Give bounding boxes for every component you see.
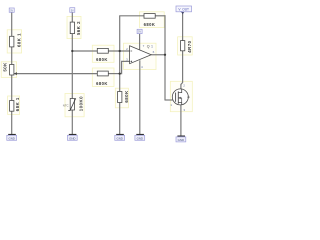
svg-text:5V: 5V <box>71 9 74 12</box>
wire gate row <box>165 99 178 101</box>
svg-text:5V: 5V <box>138 31 141 34</box>
resistor R3 68K1 body <box>10 101 14 112</box>
thermistor diagonal mark <box>68 98 76 110</box>
node V_OUT arrow <box>181 12 184 14</box>
wire V_OUT to 4R70 to drain <box>181 14 183 90</box>
svg-text:68K 1: 68K 1 <box>16 33 21 47</box>
highlight box R6 680K feedback <box>140 12 165 28</box>
wire col1 R3 to ground <box>11 111 13 134</box>
wire R5 right to node <box>108 73 119 75</box>
ground op-amp pin4 <box>135 134 145 141</box>
highlight box RV1 pot <box>1 62 16 78</box>
svg-text:68K 1: 68K 1 <box>15 97 20 111</box>
highlight box R3 <box>8 96 20 114</box>
transistor gate bar <box>175 93 177 102</box>
svg-text:GND: GND <box>8 136 14 140</box>
wire output column <box>164 15 166 100</box>
svg-text:5V: 5V <box>10 9 13 12</box>
transistor channel bar <box>177 91 179 103</box>
resistor R7 680K vertical body <box>118 92 122 103</box>
ground R7 column <box>115 134 125 141</box>
wire col2 NTC to ground <box>71 110 73 134</box>
svg-text:50K: 50K <box>2 62 7 72</box>
wire pin2 row left <box>72 50 97 52</box>
highlight box R7 680K vertical <box>115 88 128 108</box>
wire op-amp pin4 to ground <box>139 60 141 134</box>
wire op-amp output row <box>151 54 165 56</box>
junction node N1 wiper row <box>119 72 121 74</box>
power flag op-amp pin7 <box>137 29 142 33</box>
node V_OUT flag box <box>176 6 192 12</box>
wire node N1 vertical lower <box>119 103 121 135</box>
highlight box R4 680K upper <box>92 45 114 62</box>
svg-text:680K: 680K <box>96 57 108 62</box>
wire pin3 zigzag <box>120 61 130 73</box>
svg-text:GND: GND <box>116 136 122 140</box>
potentiometer RV1 body <box>10 65 14 76</box>
resistor R2 56K2 body <box>70 22 74 33</box>
junction node output <box>164 54 166 56</box>
op-amp plus sign <box>131 60 133 62</box>
wire pin2 row right <box>108 50 130 52</box>
highlight box R8 4R70 <box>178 37 193 55</box>
wire source to ground <box>180 105 182 136</box>
resistor R6 680K feedback body <box>144 14 155 19</box>
wire top row right of R6 <box>155 15 165 17</box>
transistor drain stub <box>178 89 181 93</box>
highlight box R5 680K lower <box>92 68 114 86</box>
resistor R4 680K upper body <box>97 48 108 53</box>
wire col2 R2 to NTC <box>71 34 73 99</box>
wire op-amp pin7 <box>139 34 141 50</box>
svg-text:56K 2: 56K 2 <box>76 21 81 35</box>
svg-text:100K0: 100K0 <box>79 96 84 111</box>
wire node N1 vertical upper <box>119 16 121 92</box>
wire wiper row to R5 <box>14 73 97 75</box>
junction node at R2/NTC divider <box>71 50 73 52</box>
svg-text:V_OUT: V_OUT <box>178 8 189 12</box>
ground col2 NTC <box>67 134 77 141</box>
ground transistor source <box>176 136 186 143</box>
potentiometer wiper arrow <box>14 72 17 75</box>
svg-text:Q: Q <box>147 45 150 49</box>
op-amp U1 triangle <box>130 46 152 64</box>
power flag col1 <box>9 8 14 12</box>
svg-text:1: 1 <box>151 45 153 49</box>
highlight box R1 <box>7 30 21 53</box>
power flag col2 <box>70 8 75 13</box>
transistor source stub <box>178 103 181 105</box>
svg-text:GND: GND <box>137 136 143 140</box>
svg-text:4R70: 4R70 <box>187 40 192 52</box>
svg-text:680K: 680K <box>124 90 129 103</box>
svg-text:680K: 680K <box>144 22 156 27</box>
thermistor NTC body <box>70 99 74 111</box>
wire col1 flag to R1 <box>11 12 13 36</box>
transistor body arrow <box>178 97 181 99</box>
highlight box op-amp U1 <box>124 43 157 69</box>
transistor right tick <box>187 96 189 98</box>
op-amp minus sign <box>131 50 133 52</box>
wire col1 pot to R3 <box>11 75 13 101</box>
highlight box transistor Q1 <box>170 81 192 111</box>
svg-text:GND: GND <box>178 138 184 142</box>
svg-text:680K: 680K <box>96 81 108 86</box>
resistor R1 68K1 body <box>10 36 14 47</box>
ground col1 <box>7 134 17 141</box>
resistor R5 680K lower body <box>97 71 108 76</box>
wire top row left of R6 <box>119 15 144 17</box>
svg-text:GND: GND <box>69 136 75 140</box>
highlight box NTC thermistor <box>65 94 84 117</box>
transistor Q1 circle <box>172 89 188 105</box>
wire col1 R1 to pot <box>11 47 13 65</box>
wire col2 flag to R2 <box>71 12 73 22</box>
resistor R8 4R70 body <box>181 41 185 51</box>
svg-text:NTC: NTC <box>63 103 69 107</box>
highlight box R2 56K2 <box>67 16 81 38</box>
junction node N1 pin2 row <box>119 50 121 52</box>
